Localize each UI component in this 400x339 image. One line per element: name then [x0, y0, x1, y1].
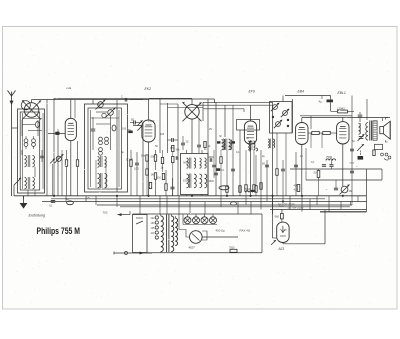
wire: [305, 148, 307, 180]
motor frame: [202, 231, 207, 240]
cap C27: [294, 165, 298, 167]
wire: [74, 100, 76, 119]
wire: [351, 96, 353, 197]
wire: [290, 168, 382, 170]
transformer T1 core: [167, 215, 169, 253]
grid capacitor C31: [122, 128, 133, 134]
pot arrow P1: [357, 144, 364, 155]
svg-text:125: 125: [151, 227, 156, 230]
wire: [142, 122, 144, 196]
coil L1a: [25, 155, 35, 167]
label EK2: [145, 87, 152, 91]
field resistor R14: [373, 150, 375, 156]
wire: [215, 102, 217, 196]
label squiggles: [86, 140, 355, 200]
label 3000: [183, 161, 189, 165]
label 1M: [151, 173, 156, 177]
output transformer T2 winding: [373, 121, 377, 140]
top bus wire: [32, 99, 150, 101]
svg-text:N: N: [285, 228, 287, 232]
svg-text:~: ~: [356, 165, 358, 169]
wire: [57, 129, 59, 196]
IF transformer T3 box: [181, 154, 209, 195]
second gang circle: [21, 101, 30, 110]
wire EF9 top 1: [203, 101, 273, 103]
wire: [295, 152, 297, 196]
wire mid right: [300, 115, 352, 117]
coil L1b: [25, 177, 35, 189]
mini arrows left: [50, 159, 55, 164]
svg-text:EF9: EF9: [249, 90, 255, 94]
cap blob C33: [216, 168, 225, 172]
svg-text:400 Ωμ: 400 Ωμ: [216, 229, 226, 233]
resistor R11: [331, 110, 355, 113]
speaker plug: [381, 153, 391, 160]
wire: [96, 160, 106, 188]
label 1k: [161, 166, 165, 170]
bus wire B7 corner: [320, 169, 367, 212]
svg-text:0,5: 0,5: [170, 146, 174, 150]
svg-text:4,5: 4,5: [294, 188, 298, 192]
svg-text:3000: 3000: [183, 161, 189, 165]
wire: [330, 103, 332, 112]
IF2 coil L9: [230, 140, 232, 150]
svg-text:220: 220: [151, 217, 156, 220]
svg-text:EBL1: EBL1: [338, 91, 346, 95]
third wall RF box: [91, 110, 120, 187]
wire: [116, 100, 118, 192]
label 50k: [151, 155, 156, 159]
svg-text:RAX 4Ω: RAX 4Ω: [240, 229, 251, 233]
osc cap C10: [168, 138, 179, 142]
svg-text:100: 100: [122, 128, 127, 131]
label RAX: [240, 229, 251, 233]
resistor R24: [146, 161, 148, 196]
wire V2 cathode: [148, 142, 150, 196]
coil box L3 shield: [85, 104, 128, 192]
speaker magnet: [375, 144, 383, 149]
coupling capacitor C15: [319, 100, 334, 104]
resistor R6: [165, 170, 167, 196]
wire V3 top: [244, 105, 251, 120]
wire corner: [350, 202, 352, 206]
choke on bus L7: [66, 197, 73, 205]
wire: [310, 116, 312, 129]
label EB4: [298, 90, 305, 94]
box1 tap rung 2: [23, 124, 36, 126]
RF box rung: [91, 117, 120, 119]
resistor R30: [204, 141, 211, 148]
wire: [282, 96, 284, 102]
label Erdleitung: [29, 213, 47, 217]
label EBL1: [338, 91, 346, 95]
wire osc top: [160, 104, 203, 108]
wire: [167, 103, 169, 153]
mains switch: [136, 218, 143, 224]
resistor R15: [317, 169, 320, 196]
primary coil: [366, 123, 368, 141]
tube V3 EF9: [244, 121, 256, 144]
label AZ1: [278, 247, 285, 251]
PSU right rail: [261, 214, 263, 253]
label 50: [314, 171, 317, 175]
label EF9: [249, 90, 255, 94]
coil figure8 L3d: [99, 148, 103, 156]
coil box L1 inner wall: [20, 112, 40, 190]
tuning motor M1: [179, 230, 202, 250]
svg-text:AZ1: AZ1: [278, 247, 285, 251]
wire V4 cathode: [301, 145, 303, 197]
bus wire B4: [97, 204, 352, 206]
cap C18: [358, 156, 364, 160]
det coil L11: [268, 139, 275, 149]
svg-text:0,1: 0,1: [311, 161, 315, 164]
switch S1a: [54, 154, 63, 163]
svg-text:1M: 1M: [157, 177, 160, 180]
capacitor C7: [135, 152, 139, 196]
wire antenna to coil: [12, 127, 18, 129]
coil L3a: [98, 156, 107, 167]
svg-text:1500: 1500: [209, 180, 215, 183]
dial lamps: [184, 214, 217, 224]
coil L12 horizontal: [245, 189, 256, 193]
wire: [61, 160, 63, 196]
resistor R2: [76, 141, 78, 196]
RF box rung 2: [96, 123, 110, 125]
cap C32: [212, 150, 216, 178]
coil figure8 L3c: [99, 137, 109, 145]
svg-text:0,1µF: 0,1µF: [126, 157, 133, 161]
svg-text:10 TGF 2030: 10 TGF 2030: [288, 205, 304, 209]
IF2 coil L10: [248, 141, 255, 151]
top cap C30: [121, 96, 127, 102]
switch arrow S1b: [14, 178, 21, 196]
osc tuning capacitor C9: [183, 99, 202, 121]
svg-text:3000: 3000: [209, 156, 215, 159]
resistor R7: [226, 150, 228, 196]
label 400: [216, 229, 226, 233]
wire: [34, 190, 36, 196]
wire: [266, 160, 268, 202]
resistor R16: [294, 184, 300, 192]
coupling cap C8: [130, 121, 141, 125]
cap C11: [171, 178, 175, 196]
wire: [285, 133, 287, 196]
wire: [202, 102, 204, 121]
wire V1 grid: [48, 133, 65, 135]
coil C4 figure8: [32, 136, 36, 149]
omega marks: [279, 204, 284, 212]
resistor R13: [323, 132, 337, 135]
PSU bottom rail: [147, 252, 262, 254]
resistor R17: [229, 246, 237, 252]
wire V2 top: [148, 99, 150, 120]
wire: [177, 104, 179, 196]
wire: [53, 150, 63, 196]
tube V1: [65, 118, 76, 140]
IF transformer T4a: [223, 139, 230, 151]
label 25: [186, 140, 189, 144]
dropper resistor R18: [275, 210, 284, 223]
label 100: [134, 167, 139, 171]
transformer T1 taps: [151, 216, 159, 239]
svg-text:0,1μF: 0,1μF: [148, 120, 155, 123]
mains loop: [133, 215, 148, 253]
svg-text:1M: 1M: [349, 189, 353, 193]
pot P2: [340, 185, 353, 195]
V3 bottom dot: [250, 141, 252, 143]
osc trimmer C24: [197, 119, 201, 153]
coil box L1 shield: [18, 109, 45, 193]
tube V5 EBL1: [337, 122, 349, 144]
bus wire B2: [51, 198, 325, 200]
wire: [214, 99, 216, 103]
wire: [239, 130, 241, 196]
label ohm marks: [350, 161, 359, 169]
label 10TGF: [288, 205, 304, 209]
svg-text:15000: 15000: [183, 179, 191, 183]
svg-text:1M: 1M: [151, 173, 156, 177]
resistor R19: [220, 150, 222, 196]
third wall left box: [23, 113, 44, 189]
wire: [53, 98, 55, 196]
cap blob C35: [232, 141, 235, 143]
mains lead: [114, 252, 152, 255]
svg-text:EB4: EB4: [298, 90, 305, 94]
wire T3 leads: [187, 150, 203, 196]
resistor R1: [65, 150, 67, 196]
wire V2 grid left: [133, 125, 142, 127]
pickup arrow: [118, 211, 131, 216]
trimmer C6: [91, 117, 95, 150]
antenna A1: [8, 91, 16, 197]
svg-text:100: 100: [160, 133, 165, 136]
svg-text:100: 100: [134, 167, 139, 171]
label L2942: [337, 106, 345, 110]
resistor R25: [149, 182, 151, 188]
wire right edge: [382, 118, 384, 122]
resistor R20: [245, 150, 247, 196]
label 3000 right: [209, 156, 215, 183]
IF transformer T4b: [249, 148, 258, 151]
wire: [179, 214, 223, 253]
switch S3b: [281, 109, 289, 117]
bus wire B3: [42, 201, 367, 203]
wire V6 bottom: [283, 210, 325, 244]
coil T3b1: [187, 174, 197, 189]
resistor R21: [260, 183, 262, 190]
svg-text:0,1: 0,1: [49, 203, 53, 207]
resistor R4: [154, 150, 156, 170]
mixer grid arrows: [137, 120, 142, 130]
wire: [272, 102, 274, 196]
small oval on bus: [231, 202, 237, 205]
label 0,5: [170, 146, 174, 150]
wire switch leads: [93, 100, 111, 151]
svg-text:150: 150: [151, 222, 156, 225]
coil L6: [326, 159, 336, 161]
coil box L3 inner wall: [88, 108, 122, 189]
wire V6 left: [271, 196, 277, 245]
tube V4 EB4: [296, 123, 308, 145]
svg-text:9µ: 9µ: [66, 197, 69, 201]
label 36TGF: [278, 203, 295, 207]
output transformer T2 core: [370, 121, 372, 141]
wire V4 top: [301, 118, 303, 123]
resistor R3: [130, 150, 132, 196]
bus vertical drops: [24, 196, 359, 214]
coil T3a2: [200, 158, 207, 168]
wire: [224, 105, 226, 137]
svg-text:50: 50: [131, 118, 135, 122]
label C8: [131, 118, 135, 122]
wire V5 cathode: [342, 144, 344, 186]
bus wire B1: [14, 195, 366, 197]
svg-text:0,1: 0,1: [236, 151, 240, 154]
caption Philips 755 M: [37, 226, 81, 236]
resistor R28: [172, 152, 174, 196]
switch dots: [272, 116, 289, 127]
resistor R23: [141, 155, 148, 162]
RF box tap oval: [112, 125, 116, 131]
cap C26: [214, 173, 218, 175]
svg-text:702: 702: [103, 211, 108, 215]
svg-text:110: 110: [151, 232, 155, 235]
label mid squiggles: [128, 120, 212, 136]
svg-text:0,5: 0,5: [86, 197, 90, 200]
wire lamp bus: [183, 214, 217, 225]
label 3000b: [219, 135, 249, 140]
wire: [311, 133, 322, 148]
wire C1 to top bus: [31, 100, 33, 103]
bus wire B6: [270, 209, 367, 211]
wire top right: [285, 95, 331, 97]
wire V5 top: [342, 118, 344, 122]
svg-text:Philips 755 M: Philips 755 M: [37, 226, 81, 236]
wire: [292, 99, 294, 133]
svg-text:L4a: L4a: [67, 86, 72, 90]
cap C19: [329, 160, 333, 169]
label L4a: [67, 86, 72, 90]
wire EF9 top 3: [203, 108, 244, 110]
svg-text:7500: 7500: [326, 155, 333, 159]
wire: [321, 96, 323, 100]
top bus wire 2: [54, 97, 192, 99]
resistor R22: [253, 150, 255, 191]
cap C28: [350, 149, 354, 173]
cap on bus C22: [49, 201, 55, 208]
cap C29: [40, 150, 44, 162]
wire: [130, 99, 143, 101]
resistor R26: [161, 150, 163, 172]
cap blob C34: [217, 141, 220, 143]
ground GND1: [20, 196, 28, 209]
svg-text:960: 960: [275, 215, 280, 219]
speaker SPK: [380, 121, 390, 139]
resistor R8: [239, 186, 241, 193]
junction dots: [53, 195, 344, 203]
switch S3a: [271, 103, 279, 111]
resistor R9: [255, 155, 257, 196]
wire C9 down: [191, 119, 193, 153]
cap X C17: [358, 134, 365, 141]
svg-text:~: ~: [326, 188, 328, 192]
bandswitch S3 box: [270, 102, 293, 134]
cap C20: [322, 165, 326, 167]
svg-text:7000: 7000: [245, 189, 251, 191]
label 7500: [326, 155, 333, 159]
wire L1 leads: [22, 120, 38, 196]
coil T3b2: [200, 174, 207, 188]
switch S3c: [274, 120, 282, 128]
coil C3 figure8: [24, 136, 28, 149]
resistor R10: [276, 133, 278, 196]
resistor R31 horizontal: [219, 186, 229, 190]
cap C25: [231, 169, 235, 171]
wire V1 top lead: [70, 100, 72, 119]
cap C14: [281, 160, 285, 202]
wire top EK2 section: [149, 98, 215, 100]
cap C13: [262, 162, 269, 167]
wire left section: [46, 100, 48, 197]
wire V3 cathode: [250, 145, 252, 197]
resistor R27: [172, 145, 181, 151]
wire V4V5 top bus: [302, 117, 390, 119]
wire: [207, 99, 209, 196]
bus wire B5: [120, 206, 350, 208]
wire: [381, 169, 383, 180]
rectifier tube V6: [277, 222, 289, 242]
label 0,1uF: [126, 157, 133, 161]
coil L5: [359, 123, 361, 134]
trimmer C12: [176, 156, 212, 162]
resistor R12: [308, 132, 322, 135]
wire: [366, 99, 368, 120]
IF2 coil L8: [222, 139, 225, 150]
label ~: [326, 188, 328, 192]
osc padder C23: [181, 136, 185, 150]
wire EF9 top 2: [195, 104, 273, 106]
scan noise texture: [6, 31, 391, 305]
bandswitch S2: [96, 100, 116, 118]
coil T3a1: [187, 158, 196, 169]
tuning capacitor C1: [22, 100, 41, 119]
cap C21: [334, 180, 338, 190]
svg-text:40k: 40k: [294, 184, 299, 188]
box1 tap oval: [36, 122, 40, 128]
EF9 stage box: [237, 120, 260, 131]
wire motor out: [202, 236, 238, 238]
wire: [260, 150, 262, 196]
svg-text:4627: 4627: [189, 246, 196, 250]
svg-text:4µ: 4µ: [319, 100, 323, 104]
PSU top rail: [133, 213, 263, 215]
label 15000: [183, 179, 191, 183]
svg-text:C: C: [121, 96, 123, 99]
wire V1 cathode: [70, 141, 72, 196]
box1 tap rung 3: [28, 130, 42, 132]
transformer T1 primary: [161, 214, 164, 253]
svg-text:50k: 50k: [151, 155, 156, 159]
svg-text:7500: 7500: [229, 246, 235, 249]
box1 tap rung: [23, 118, 43, 120]
grid capacitor C5: [55, 132, 59, 135]
resistor R5: [154, 173, 156, 196]
wire: [330, 96, 332, 100]
svg-text:EK2: EK2: [145, 87, 152, 91]
coil L3b: [98, 173, 107, 188]
wire: [232, 105, 234, 196]
